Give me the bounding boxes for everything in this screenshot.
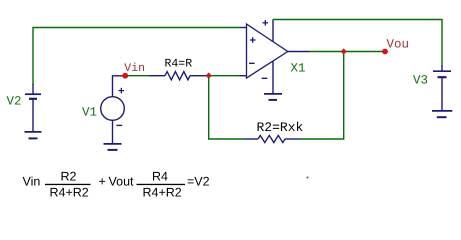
wire output to Vou node xyxy=(309,51,385,53)
junction node: R4 / feedback tap xyxy=(206,73,212,79)
op-amp X1 V+ power pin lead xyxy=(272,20,274,42)
op-amp X1 V- minus symbol xyxy=(262,77,268,79)
op-amp X1 + input symbol xyxy=(250,37,256,43)
formula fraction bar 1 xyxy=(45,184,91,185)
svg-text:V3: V3 xyxy=(413,74,428,88)
wire net: V2 positive terminal up and across to op-amp noninverting input xyxy=(33,28,240,86)
svg-text:Vin: Vin xyxy=(23,175,41,189)
svg-text:R4=R: R4=R xyxy=(165,57,193,70)
svg-text:R2=Rxk: R2=Rxk xyxy=(257,120,304,135)
ground (below V3) xyxy=(432,111,452,117)
svg-text:V1: V1 xyxy=(82,106,97,120)
wire Vin node to R4 xyxy=(127,75,149,77)
stray dot artifact xyxy=(307,177,309,179)
op-amp X1 V- power pin lead xyxy=(272,62,274,94)
node Vou (test point) xyxy=(382,49,388,55)
svg-text:R4: R4 xyxy=(152,170,168,184)
battery V2 xyxy=(25,84,41,132)
svg-text:Vou: Vou xyxy=(387,37,410,51)
formula: Vin R2/(R4+R2) + Vout R4/(R4+R2) = V2 xyxy=(23,170,210,200)
op-amp X1 V+ plus symbol xyxy=(263,20,269,26)
wire V+ rail across to V3 xyxy=(273,20,442,66)
svg-text:X1: X1 xyxy=(291,62,306,76)
resistor R4 xyxy=(149,72,206,80)
svg-text:Vin: Vin xyxy=(124,62,145,75)
battery V3 xyxy=(433,65,451,111)
svg-text:Vout: Vout xyxy=(109,175,135,189)
wire R4 to op-amp inverting input xyxy=(206,75,240,77)
resistor R2 xyxy=(244,135,300,142)
svg-text:R4+R2: R4+R2 xyxy=(50,186,89,200)
svg-text:V2: V2 xyxy=(7,94,22,108)
op-amp X1 - input symbol xyxy=(249,62,255,64)
svg-text:=V2: =V2 xyxy=(187,175,210,189)
op-amp X1 body xyxy=(247,24,288,78)
node Vin (test point) xyxy=(122,73,128,79)
op-amp X1 noninverting input lead xyxy=(240,27,247,29)
ground (op-amp V- pin) xyxy=(264,94,282,100)
wire feedback: tap down and across to R2 xyxy=(209,77,244,139)
op-amp X1 inverting input lead xyxy=(240,75,247,77)
svg-text:R4+R2: R4+R2 xyxy=(143,186,182,200)
voltage source V1 xyxy=(101,76,125,144)
svg-text:R2: R2 xyxy=(61,170,77,184)
svg-text:+: + xyxy=(99,175,106,189)
ground (below V2) xyxy=(25,132,42,139)
ground (below V1) xyxy=(104,144,122,150)
op-amp output lead xyxy=(288,51,309,53)
junction node: output / feedback xyxy=(341,48,347,54)
wire R2 to output node xyxy=(300,52,344,140)
formula fraction bar 2 xyxy=(137,184,186,185)
